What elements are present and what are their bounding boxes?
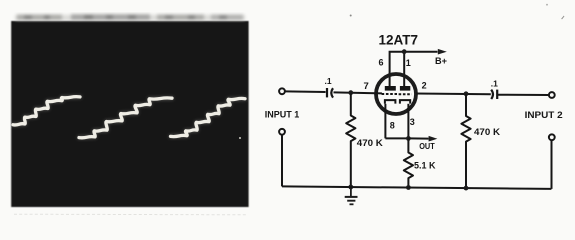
wire INPUT1 to C1 <box>285 90 326 93</box>
tube V1 grid left (dashed) <box>382 93 397 95</box>
page speck right margin <box>561 16 564 20</box>
node junction R3 bottom <box>406 185 411 190</box>
wire C2 to INPUT2 <box>498 94 549 96</box>
svg-text:INPUT 1: INPUT 1 <box>265 109 300 120</box>
node junction R1 bottom <box>348 185 353 190</box>
B+ arrowhead <box>438 49 447 55</box>
blurred halftone band above photo <box>15 14 245 20</box>
waveform trace 3 (staircase) <box>171 98 246 136</box>
wire cathode junction horizontal <box>385 137 408 139</box>
photo speck <box>239 137 241 139</box>
svg-text:8: 8 <box>390 121 395 131</box>
svg-text:OUT: OUT <box>419 141 435 151</box>
resistor R1 470K <box>346 93 355 187</box>
resistor R3 5.1K <box>404 138 413 187</box>
svg-text:7: 7 <box>364 81 369 92</box>
faint line below photo <box>14 213 248 216</box>
node junction B+ <box>402 49 407 54</box>
node junction OUT <box>406 136 411 141</box>
svg-text:470 K: 470 K <box>357 138 384 148</box>
node junction R2 top <box>464 91 469 96</box>
svg-text:5.1 K: 5.1 K <box>414 161 436 171</box>
tube V1 plate left <box>385 86 396 91</box>
resistor R2 470K <box>461 94 470 188</box>
ground <box>345 187 358 204</box>
svg-text:1: 1 <box>406 58 411 68</box>
terminal INPUT1 bottom <box>279 129 285 135</box>
tube V1 plate right <box>400 86 410 91</box>
wire INPUT1 down to rail <box>281 135 283 187</box>
terminal INPUT2 top <box>549 92 555 98</box>
capacitor C2 plate curved <box>491 90 493 99</box>
OUT arrowhead <box>429 136 438 142</box>
capacitor C2 plate straight <box>496 90 498 99</box>
wire INPUT2 down to rail <box>551 140 553 189</box>
svg-text:.1: .1 <box>325 76 332 86</box>
wire B+ rail with arrow <box>390 52 438 87</box>
waveform trace 2 (staircase) <box>79 98 172 138</box>
tube V1 grid right (dashed) <box>399 93 412 95</box>
svg-text:6: 6 <box>379 58 384 68</box>
wire cathode lead pin 3 <box>407 104 409 139</box>
svg-text:.1: .1 <box>491 78 498 88</box>
svg-text:B+: B+ <box>435 56 447 66</box>
wire OUT with arrow <box>408 137 428 139</box>
node junction R2 bottom <box>464 186 469 191</box>
capacitor C1 plate curved <box>331 88 333 97</box>
page speck top <box>350 15 352 17</box>
node junction R1 top <box>348 90 353 95</box>
wire C1 to grid pin 7 <box>334 92 383 93</box>
tube V1 12AT7 envelope <box>376 74 416 114</box>
wire plate lead pin 1 <box>403 52 405 87</box>
svg-text:INPUT 2: INPUT 2 <box>525 110 563 121</box>
tube V1 cathode right <box>400 100 410 104</box>
wire ground rail <box>282 186 551 189</box>
capacitor C1 plate straight <box>326 88 328 97</box>
svg-text:12AT7: 12AT7 <box>379 31 419 47</box>
svg-text:470 K: 470 K <box>474 127 501 137</box>
svg-text:3: 3 <box>410 117 415 127</box>
waveform glow <box>13 97 245 138</box>
wire cathode lead pin 8 <box>384 104 386 139</box>
terminal INPUT1 top <box>279 88 285 94</box>
tube V1 cathode left <box>385 100 396 104</box>
terminal INPUT2 bottom <box>549 134 555 140</box>
wire grid pin 2 to C2 <box>416 93 491 96</box>
page speck top right <box>546 4 548 6</box>
oscilloscope photo background <box>11 21 248 207</box>
svg-text:2: 2 <box>422 80 427 90</box>
waveform trace 1 (staircase) <box>13 97 80 125</box>
